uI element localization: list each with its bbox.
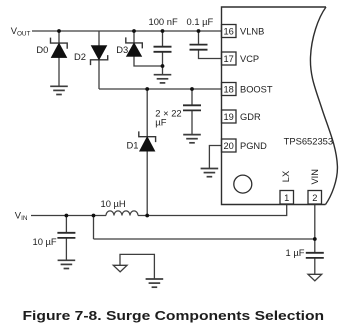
wire 10uF top: [65, 216, 67, 233]
pin 19 box: [222, 110, 237, 123]
wire D0 anode to ground: [58, 57, 60, 86]
wire PGND pin 20 to ground: [209, 146, 221, 169]
svg-text:100 nF: 100 nF: [149, 16, 178, 27]
wire D3 cathode up: [133, 31, 135, 43]
pin 16 box: [222, 25, 237, 38]
node LX/D1: [145, 214, 149, 218]
wire BOOST rail (net BOOST to pin 18): [99, 88, 222, 90]
diode D3 (zener, cathode up): [126, 37, 143, 56]
wire ground tie bracket: [120, 254, 154, 278]
pin 20 box: [222, 139, 237, 152]
svg-text:10 µF: 10 µF: [33, 236, 57, 247]
wire 10uF bottom to ground: [65, 239, 67, 261]
wire 0.1uF bottom to pin 17 VCP: [199, 50, 222, 58]
node VIN/bypass: [92, 214, 96, 218]
svg-text:1 µF: 1 µF: [286, 247, 305, 258]
diode D1 (zener, cathode up): [139, 131, 156, 151]
wire LX rail (inductor to pin 1 LX): [138, 205, 287, 216]
svg-text:VOUT: VOUT: [11, 25, 31, 37]
wire VIN rail left (VIN to inductor): [31, 215, 106, 217]
capacitor C4 10uF plates: [57, 233, 75, 238]
node VIN/10uF: [65, 214, 69, 218]
pin 18 box: [222, 83, 237, 96]
node junction dots: [57, 29, 317, 241]
node BOOST/2x22uF: [190, 87, 194, 91]
ground GND6 (tie bracket earth): [146, 279, 164, 287]
svg-text:D0: D0: [36, 44, 48, 55]
svg-text:VCP: VCP: [240, 54, 259, 64]
wire D1 cathode up to BOOST: [146, 89, 148, 137]
node D3-100nF: [161, 64, 165, 68]
svg-text:18: 18: [224, 84, 234, 94]
svg-text:VIN: VIN: [310, 169, 320, 185]
wire D1 anode down to LX rail: [146, 151, 148, 215]
ground GND2 (under 100nF / D3 node): [154, 75, 172, 83]
wire VOUT rail (net VOUT to pin 16): [32, 30, 222, 32]
ground GND4 (PGND): [201, 169, 219, 177]
wire VIN bypass line to pin 2: [94, 238, 315, 240]
node VOUT/D0: [57, 29, 61, 33]
wire 100nF bottom to ground: [162, 52, 164, 74]
capacitor C3 2x22uF plates: [183, 105, 201, 110]
ground GND3 (under 2x22uF): [183, 135, 201, 143]
svg-text:1: 1: [284, 193, 289, 203]
wire 1uF bottom to chassis ground: [314, 259, 316, 275]
node VOUT/D3: [132, 29, 136, 33]
wire 0.1uF top: [198, 31, 200, 44]
svg-text:VIN: VIN: [15, 210, 28, 222]
capacitor C5 1uF plates: [306, 253, 324, 258]
svg-text:µF: µF: [155, 116, 166, 127]
svg-text:LX: LX: [281, 171, 291, 182]
diode D0 (zener, cathode up): [51, 38, 68, 58]
svg-text:D1: D1: [127, 140, 139, 151]
wire 2x22uF top to BOOST: [191, 89, 193, 105]
capacitor C1 100nF plates: [154, 47, 172, 52]
svg-text:D3: D3: [116, 44, 128, 55]
node VOUT/0.1uF: [197, 29, 201, 33]
capacitor C2 0.1uF plates: [190, 45, 208, 50]
svg-text:PGND: PGND: [240, 141, 267, 151]
svg-text:19: 19: [224, 112, 234, 122]
svg-text:Figure 7-8. Surge Components S: Figure 7-8. Surge Components Selection: [22, 309, 324, 323]
chassis ground (under 1uF): [308, 274, 322, 281]
wire pin 2 VIN down: [314, 205, 316, 253]
svg-text:17: 17: [224, 54, 234, 64]
wire D2 cathode to BOOST rail: [98, 60, 100, 89]
ground GND5 (under 10uF): [58, 260, 76, 268]
pin 1 box: [280, 191, 294, 205]
svg-text:2: 2: [312, 193, 317, 203]
wire D0 cathode up: [58, 31, 60, 43]
diode D2 (zener, cathode down): [91, 46, 108, 66]
node BOOST/D1: [145, 87, 149, 91]
svg-text:BOOST: BOOST: [240, 84, 273, 94]
svg-text:VLNB: VLNB: [240, 26, 264, 36]
op-amp U1 TPS652353 IC outline: [222, 7, 338, 205]
svg-text:D2: D2: [74, 51, 86, 62]
wire 2x22uF bottom to ground: [191, 111, 193, 134]
svg-text:16: 16: [224, 26, 234, 36]
svg-text:20: 20: [224, 141, 234, 151]
svg-text:10 µH: 10 µH: [101, 198, 126, 209]
svg-text:GDR: GDR: [240, 112, 261, 122]
node bypass/pin2: [313, 237, 317, 241]
pin 17 box: [222, 52, 237, 65]
inductor L1 10uH: [106, 211, 138, 216]
wire 100nF top: [162, 31, 164, 46]
wire D3 anode to node A: [134, 56, 163, 66]
node VOUT/100nF: [161, 29, 165, 33]
wire D2 anode up: [98, 31, 100, 46]
chassis ground (tie bracket triangle): [113, 265, 127, 272]
IC thermal pad circle: [234, 175, 252, 193]
wire VIN bypass drop: [93, 216, 95, 240]
ground GND1 (under D0): [50, 86, 68, 94]
svg-text:TPS652353: TPS652353: [284, 135, 334, 146]
svg-text:0.1 µF: 0.1 µF: [187, 16, 214, 27]
pin 2 box: [308, 191, 322, 205]
